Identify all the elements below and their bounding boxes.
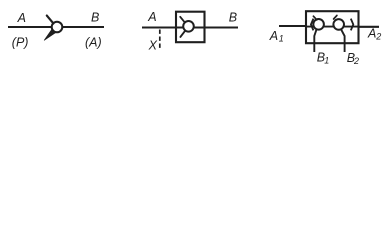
check valve seat plate 2 (figure 3) [351,19,354,31]
check valve seat lower arm with wedge (figure 1) [44,29,55,40]
check valve ball 2 (figure 3) [333,19,344,30]
svg-text:2: 2 [353,56,359,66]
check valve seat lower arm (figure 2) [180,31,185,37]
wire A2 (figure 3 right line) [359,26,380,28]
valve body box (figure 2) [176,12,205,43]
check valve seat upper whisker 1 (figure 3) [313,16,316,20]
check valve seat upper arm (figure 1) [47,16,54,24]
svg-text:(A): (A) [85,35,102,49]
check valve ball (figure 2) [183,21,194,32]
check valve seat upper arm (figure 2) [180,17,185,23]
valve body box (figure 3) [306,11,359,43]
pilot line X dashed (figure 2) [159,30,161,49]
wire B1 passage (figure 3) [314,29,317,52]
check valve seat plate 1 (figure 3) [311,19,314,31]
svg-text:B: B [91,10,99,24]
svg-text:B: B [229,11,237,25]
svg-text:2: 2 [375,31,381,41]
svg-text:A: A [269,29,278,43]
wire inside box (figure 2) [176,26,238,28]
wire B2 passage (figure 3) [341,29,345,52]
wire through box (figure 3) [306,26,359,28]
svg-text:X: X [148,38,158,52]
wire B (figure 1 right line) [62,26,104,28]
svg-text:1: 1 [279,34,284,44]
svg-text:A: A [367,27,376,41]
svg-text:(P): (P) [12,35,29,49]
svg-text:A: A [17,11,26,25]
wire A (figure 2 inlet line) [142,26,176,28]
svg-text:A: A [147,10,156,24]
check valve ball 1 (figure 3) [313,19,324,30]
wire A (figure 1 left line) [8,26,52,28]
check valve seat upper whisker 2 (figure 3) [334,15,337,19]
svg-text:1: 1 [324,55,329,65]
wire A1 (figure 3 left line) [279,25,306,27]
check valve ball (figure 1) [52,22,63,33]
